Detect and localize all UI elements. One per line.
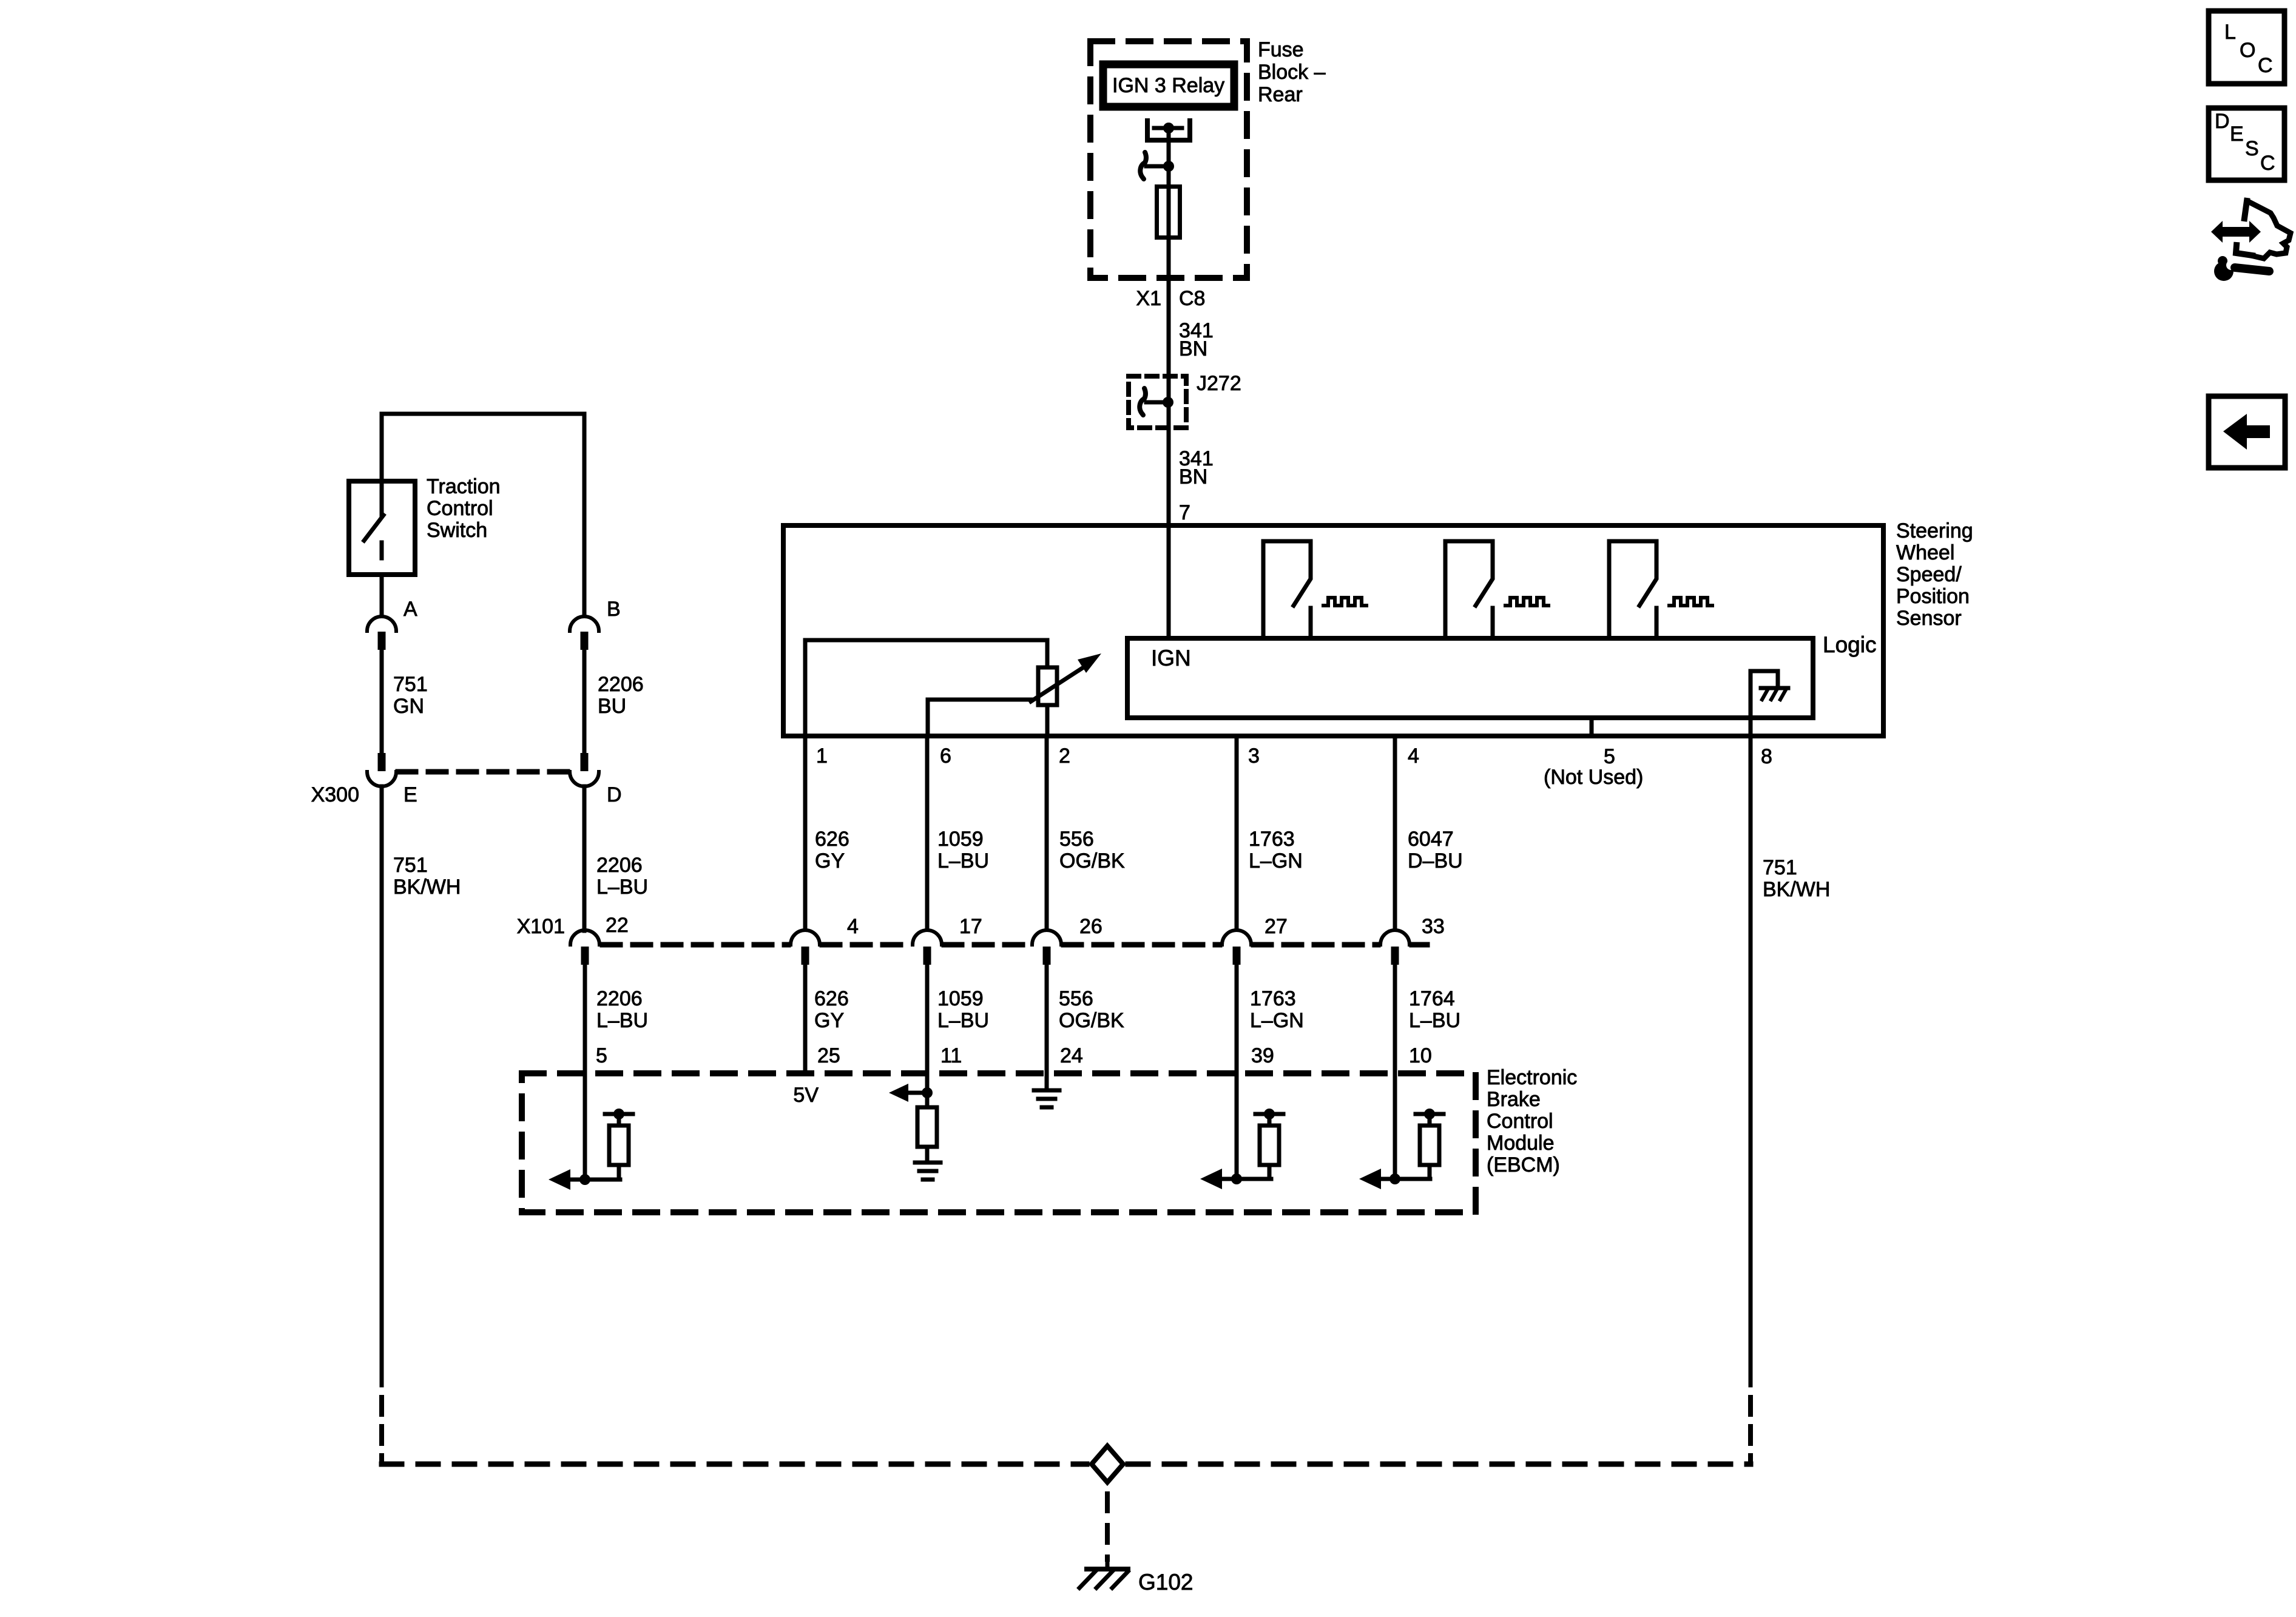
svg-text:D: D xyxy=(607,783,622,806)
splice J272 dot xyxy=(1163,397,1173,408)
label X101 xyxy=(517,915,565,938)
relay coil junction dot xyxy=(1163,161,1174,172)
X101 connector 17 xyxy=(913,930,942,965)
hall sensor switch 1 xyxy=(1263,541,1366,638)
wire label 341 BN (upper) xyxy=(1179,319,1214,360)
svg-text:Control: Control xyxy=(427,497,493,520)
svg-text:1059: 1059 xyxy=(937,987,984,1010)
svg-text:Wheel: Wheel xyxy=(1896,541,1954,564)
svg-text:751: 751 xyxy=(393,854,428,877)
svg-text:BU: BU xyxy=(598,695,626,718)
svg-text:Sensor: Sensor xyxy=(1896,607,1962,630)
svg-text:Fuse: Fuse xyxy=(1258,38,1304,61)
svg-text:8: 8 xyxy=(1761,745,1772,768)
EBCM circuit for 1763 xyxy=(1235,1073,1239,1179)
wire 626 GY lower (X101 to EBCM pin 25) xyxy=(803,965,808,1073)
steering wheel speed/position sensor box xyxy=(783,525,1883,736)
X101 connector 22 xyxy=(570,930,599,965)
wire 2206 L-BU (D to X101 22) xyxy=(582,786,587,931)
arrow out (1059) xyxy=(908,1091,927,1095)
resistor R (1764 pull-up) xyxy=(1416,1112,1443,1116)
svg-text:S: S xyxy=(2245,137,2259,160)
X300 dashed connector line xyxy=(398,769,568,775)
wire 1059 L-BU (pin 6 to X101) xyxy=(925,736,930,931)
svg-text:D–BU: D–BU xyxy=(1408,849,1463,873)
svg-text:7: 7 xyxy=(1179,501,1190,524)
switch contact upper xyxy=(380,479,384,515)
EBCM circuit for 2206: wire into module xyxy=(583,1073,587,1180)
label Logic xyxy=(1823,632,1876,657)
svg-text:C: C xyxy=(2260,152,2275,175)
X300 connector E xyxy=(367,753,396,786)
svg-text:17: 17 xyxy=(959,915,982,938)
svg-text:5: 5 xyxy=(1604,745,1615,768)
EBCM circuit for 1059: wire into module xyxy=(925,1073,930,1107)
resistor R (2206 pull-up) xyxy=(605,1112,633,1116)
pin 5 stub (not used) xyxy=(1590,718,1594,736)
svg-text:Control: Control xyxy=(1487,1110,1553,1133)
arrow out (2206) xyxy=(570,1178,620,1182)
svg-text:OG/BK: OG/BK xyxy=(1059,1009,1124,1032)
label 5V xyxy=(793,1084,819,1107)
bottom dashed bus left segment xyxy=(382,1462,1087,1467)
junction dot 2206 xyxy=(579,1174,590,1185)
svg-text:D: D xyxy=(2215,110,2230,133)
icon back arrow box xyxy=(2209,396,2285,468)
EBCM dashed box xyxy=(522,1073,1476,1212)
svg-text:22: 22 xyxy=(606,914,629,937)
svg-text:IGN 3 Relay: IGN 3 Relay xyxy=(1112,74,1224,97)
logic internal ground wire xyxy=(1751,671,1778,718)
svg-text:2206: 2206 xyxy=(598,673,644,696)
svg-text:(Not Used): (Not Used) xyxy=(1544,766,1643,789)
svg-text:27: 27 xyxy=(1264,915,1288,938)
connector label X1 C8 xyxy=(1136,287,1205,310)
svg-text:1: 1 xyxy=(816,744,828,768)
svg-text:L–BU: L–BU xyxy=(937,1009,989,1032)
splice diamond xyxy=(1092,1446,1123,1482)
EBCM circuit for 556: wire to ground xyxy=(1045,1073,1049,1090)
svg-text:X101: X101 xyxy=(517,915,565,938)
icon adjust/wrench xyxy=(2211,201,2291,281)
svg-text:E: E xyxy=(403,783,417,806)
svg-text:J272: J272 xyxy=(1197,372,1241,395)
svg-text:Steering: Steering xyxy=(1896,519,1973,542)
svg-text:626: 626 xyxy=(815,828,849,851)
relay coil hook xyxy=(1140,152,1146,179)
potentiometer wire to pin 2 xyxy=(1045,705,1050,736)
logic box xyxy=(1127,638,1813,718)
svg-text:Brake: Brake xyxy=(1487,1088,1541,1111)
label Steering Wheel Speed/Position Sensor xyxy=(1896,519,1973,630)
svg-text:Electronic: Electronic xyxy=(1487,1066,1577,1089)
svg-text:2206: 2206 xyxy=(596,854,643,877)
wire 751 BK/WH left (E down) xyxy=(380,786,384,1385)
wire 6047 D-BU (pin 4 to X101) xyxy=(1393,736,1397,931)
logic internal chassis ground xyxy=(1761,686,1788,690)
label J272 xyxy=(1197,372,1241,395)
svg-text:BN: BN xyxy=(1179,465,1207,488)
pin labels under sensor box xyxy=(816,744,1772,789)
svg-text:X1: X1 xyxy=(1136,287,1161,310)
relay contact cup xyxy=(1147,121,1190,140)
label G102 xyxy=(1138,1570,1194,1595)
wire labels 751 GN / 2206 BU xyxy=(393,673,644,718)
wire 751 BK/WH right dashed segment xyxy=(1748,1385,1753,1464)
labels A and B xyxy=(403,598,621,621)
wire 556 OG/BK lower (X101 to EBCM pin 24) xyxy=(1045,965,1049,1073)
svg-text:B: B xyxy=(607,598,621,621)
connector B xyxy=(570,616,599,650)
wire 556 OG/BK (pin 2 to X101) xyxy=(1045,736,1049,931)
hall sensor switch 2 xyxy=(1445,541,1548,638)
svg-text:OG/BK: OG/BK xyxy=(1059,849,1125,873)
wire 2206 BU (B to X300 D) xyxy=(582,650,587,753)
icon LOC box xyxy=(2209,11,2284,84)
bottom dashed bus right segment xyxy=(1128,1462,1751,1467)
svg-text:Logic: Logic xyxy=(1823,632,1876,657)
svg-text:(EBCM): (EBCM) xyxy=(1487,1153,1560,1176)
wire 751 BK/WH right (pin 8 down) xyxy=(1749,718,1753,1385)
label Electronic Brake Control Module (EBCM) xyxy=(1487,1066,1577,1176)
svg-text:24: 24 xyxy=(1060,1044,1083,1067)
svg-text:Block –: Block – xyxy=(1258,61,1326,84)
svg-text:Speed/: Speed/ xyxy=(1896,563,1962,586)
wire below switch to connector A xyxy=(380,577,384,616)
wire 751 GN (A to X300 E) xyxy=(380,650,384,753)
X101 connector 27 xyxy=(1222,930,1251,965)
relay coil bar xyxy=(1146,164,1169,169)
X101 connector 4 xyxy=(791,930,820,965)
svg-text:1764: 1764 xyxy=(1409,987,1455,1010)
svg-text:BK/WH: BK/WH xyxy=(393,876,461,899)
svg-text:GN: GN xyxy=(393,695,424,718)
lower wire labels xyxy=(596,987,1460,1032)
svg-text:556: 556 xyxy=(1059,828,1094,851)
label IGN xyxy=(1151,646,1191,670)
svg-text:IGN: IGN xyxy=(1151,646,1191,670)
EBCM circuit for 1764 xyxy=(1393,1073,1397,1179)
switch blade xyxy=(364,515,383,541)
svg-text:Rear: Rear xyxy=(1258,83,1303,106)
svg-text:L–BU: L–BU xyxy=(937,849,989,873)
svg-text:2: 2 xyxy=(1059,744,1070,768)
X101 pin labels xyxy=(606,914,1445,938)
fuse block - rear dashed box xyxy=(1090,41,1247,278)
ground (556) xyxy=(1034,1089,1059,1093)
svg-text:BN: BN xyxy=(1179,337,1207,360)
wire 751 BK/WH left dashed xyxy=(379,1385,384,1462)
svg-text:751: 751 xyxy=(393,673,428,696)
fuse block label "Fuse Block - Rear" xyxy=(1258,38,1326,106)
svg-text:2206: 2206 xyxy=(596,987,643,1010)
potentiometer wire pin 1 xyxy=(805,640,1047,736)
potentiometer body xyxy=(1038,667,1057,705)
svg-text:L–BU: L–BU xyxy=(596,876,648,899)
svg-text:626: 626 xyxy=(814,987,849,1010)
dashed wire to G102 xyxy=(1105,1494,1110,1559)
EBCM pin labels xyxy=(596,1044,1432,1067)
svg-text:Module: Module xyxy=(1487,1132,1555,1155)
icon DESC box xyxy=(2209,108,2284,180)
wire label 2206 L-BU upper xyxy=(596,854,648,899)
ground G102 xyxy=(1087,1567,1128,1571)
svg-text:3: 3 xyxy=(1248,744,1260,768)
svg-text:1763: 1763 xyxy=(1249,828,1295,851)
relay contact bar xyxy=(1154,126,1182,130)
svg-text:C: C xyxy=(2258,54,2273,77)
wire 7 inside sensor box xyxy=(1167,525,1171,638)
svg-text:L–GN: L–GN xyxy=(1249,849,1303,873)
wire 341 BN from relay through fuse to sensor box xyxy=(1167,166,1171,525)
wire 1764 L-BU lower (X101 to EBCM pin 10) xyxy=(1393,965,1397,1073)
resistor R (1059) xyxy=(917,1107,937,1147)
svg-text:6047: 6047 xyxy=(1408,828,1454,851)
svg-text:A: A xyxy=(403,598,417,621)
wire 2206 L-BU lower (X101 to EBCM pin 5) xyxy=(583,965,587,1073)
X300 connector D xyxy=(570,753,599,786)
svg-text:556: 556 xyxy=(1059,987,1093,1010)
svg-text:GY: GY xyxy=(814,1009,844,1032)
X101 connector 33 xyxy=(1380,930,1410,965)
switch contact lower stub xyxy=(380,542,384,558)
svg-text:25: 25 xyxy=(817,1044,840,1067)
svg-text:GY: GY xyxy=(815,849,845,873)
traction control switch box xyxy=(349,481,415,575)
svg-text:4: 4 xyxy=(847,915,859,938)
svg-text:5: 5 xyxy=(596,1044,607,1067)
svg-text:751: 751 xyxy=(1763,856,1797,879)
relay box IGN 3 Relay xyxy=(1103,64,1234,107)
svg-text:1059: 1059 xyxy=(937,828,984,851)
svg-text:L–BU: L–BU xyxy=(1409,1009,1460,1032)
svg-text:4: 4 xyxy=(1408,744,1419,768)
fuse (in fuse block) xyxy=(1157,187,1180,238)
ground (1059) xyxy=(915,1161,940,1165)
svg-text:10: 10 xyxy=(1409,1044,1432,1067)
svg-text:39: 39 xyxy=(1251,1044,1274,1067)
label Traction Control Switch xyxy=(427,475,501,542)
X101 connector 26 xyxy=(1032,930,1061,965)
svg-text:L–GN: L–GN xyxy=(1250,1009,1304,1032)
svg-text:Switch: Switch xyxy=(427,519,487,542)
splice J272 bar xyxy=(1146,400,1168,405)
wire label 341 BN (lower) xyxy=(1179,447,1214,488)
wire 626 GY (pin 1 to X101) xyxy=(803,736,808,931)
svg-text:C8: C8 xyxy=(1179,287,1205,310)
svg-text:BK/WH: BK/WH xyxy=(1763,878,1830,901)
svg-text:L: L xyxy=(2224,21,2236,44)
splice J272 hook xyxy=(1140,388,1146,415)
svg-text:L–BU: L–BU xyxy=(596,1009,648,1032)
wire label 751 BK/WH left xyxy=(393,854,461,899)
wire 1763 L-GN lower (X101 to EBCM pin 39) xyxy=(1235,965,1239,1073)
svg-text:33: 33 xyxy=(1422,915,1445,938)
connector A xyxy=(367,616,396,650)
pin label 7 xyxy=(1179,501,1190,524)
labels X300 E D xyxy=(311,783,622,806)
svg-text:G102: G102 xyxy=(1138,1570,1194,1595)
hall sensor switch 3 xyxy=(1609,541,1712,638)
svg-text:Position: Position xyxy=(1896,585,1970,608)
potentiometer wiper wire pin 6 xyxy=(928,700,1031,736)
potentiometer wiper arrow xyxy=(1031,666,1086,701)
svg-text:Traction: Traction xyxy=(427,475,501,498)
svg-text:X300: X300 xyxy=(311,783,359,806)
traction control switch wiring: top loop xyxy=(382,414,584,616)
svg-text:11: 11 xyxy=(940,1044,962,1067)
svg-text:1763: 1763 xyxy=(1250,987,1296,1010)
resistor R (1763 pull-up) xyxy=(1255,1112,1283,1116)
svg-text:6: 6 xyxy=(940,744,951,768)
svg-text:E: E xyxy=(2230,123,2244,146)
wire 1763 L-GN (pin 3 to X101) xyxy=(1235,736,1239,931)
svg-text:26: 26 xyxy=(1079,915,1102,938)
wire relay to junction xyxy=(1167,128,1171,166)
svg-text:5V: 5V xyxy=(793,1084,819,1107)
wire 1059 L-BU lower (X101 to EBCM pin 11) xyxy=(925,965,930,1073)
svg-text:O: O xyxy=(2240,39,2255,62)
junction dot 1059 xyxy=(922,1087,933,1098)
X101 dashed connector line xyxy=(603,942,788,948)
relay contact pivot dot xyxy=(1163,123,1174,133)
splice J272 dashed box xyxy=(1129,376,1186,428)
mid wire labels xyxy=(815,828,1830,901)
